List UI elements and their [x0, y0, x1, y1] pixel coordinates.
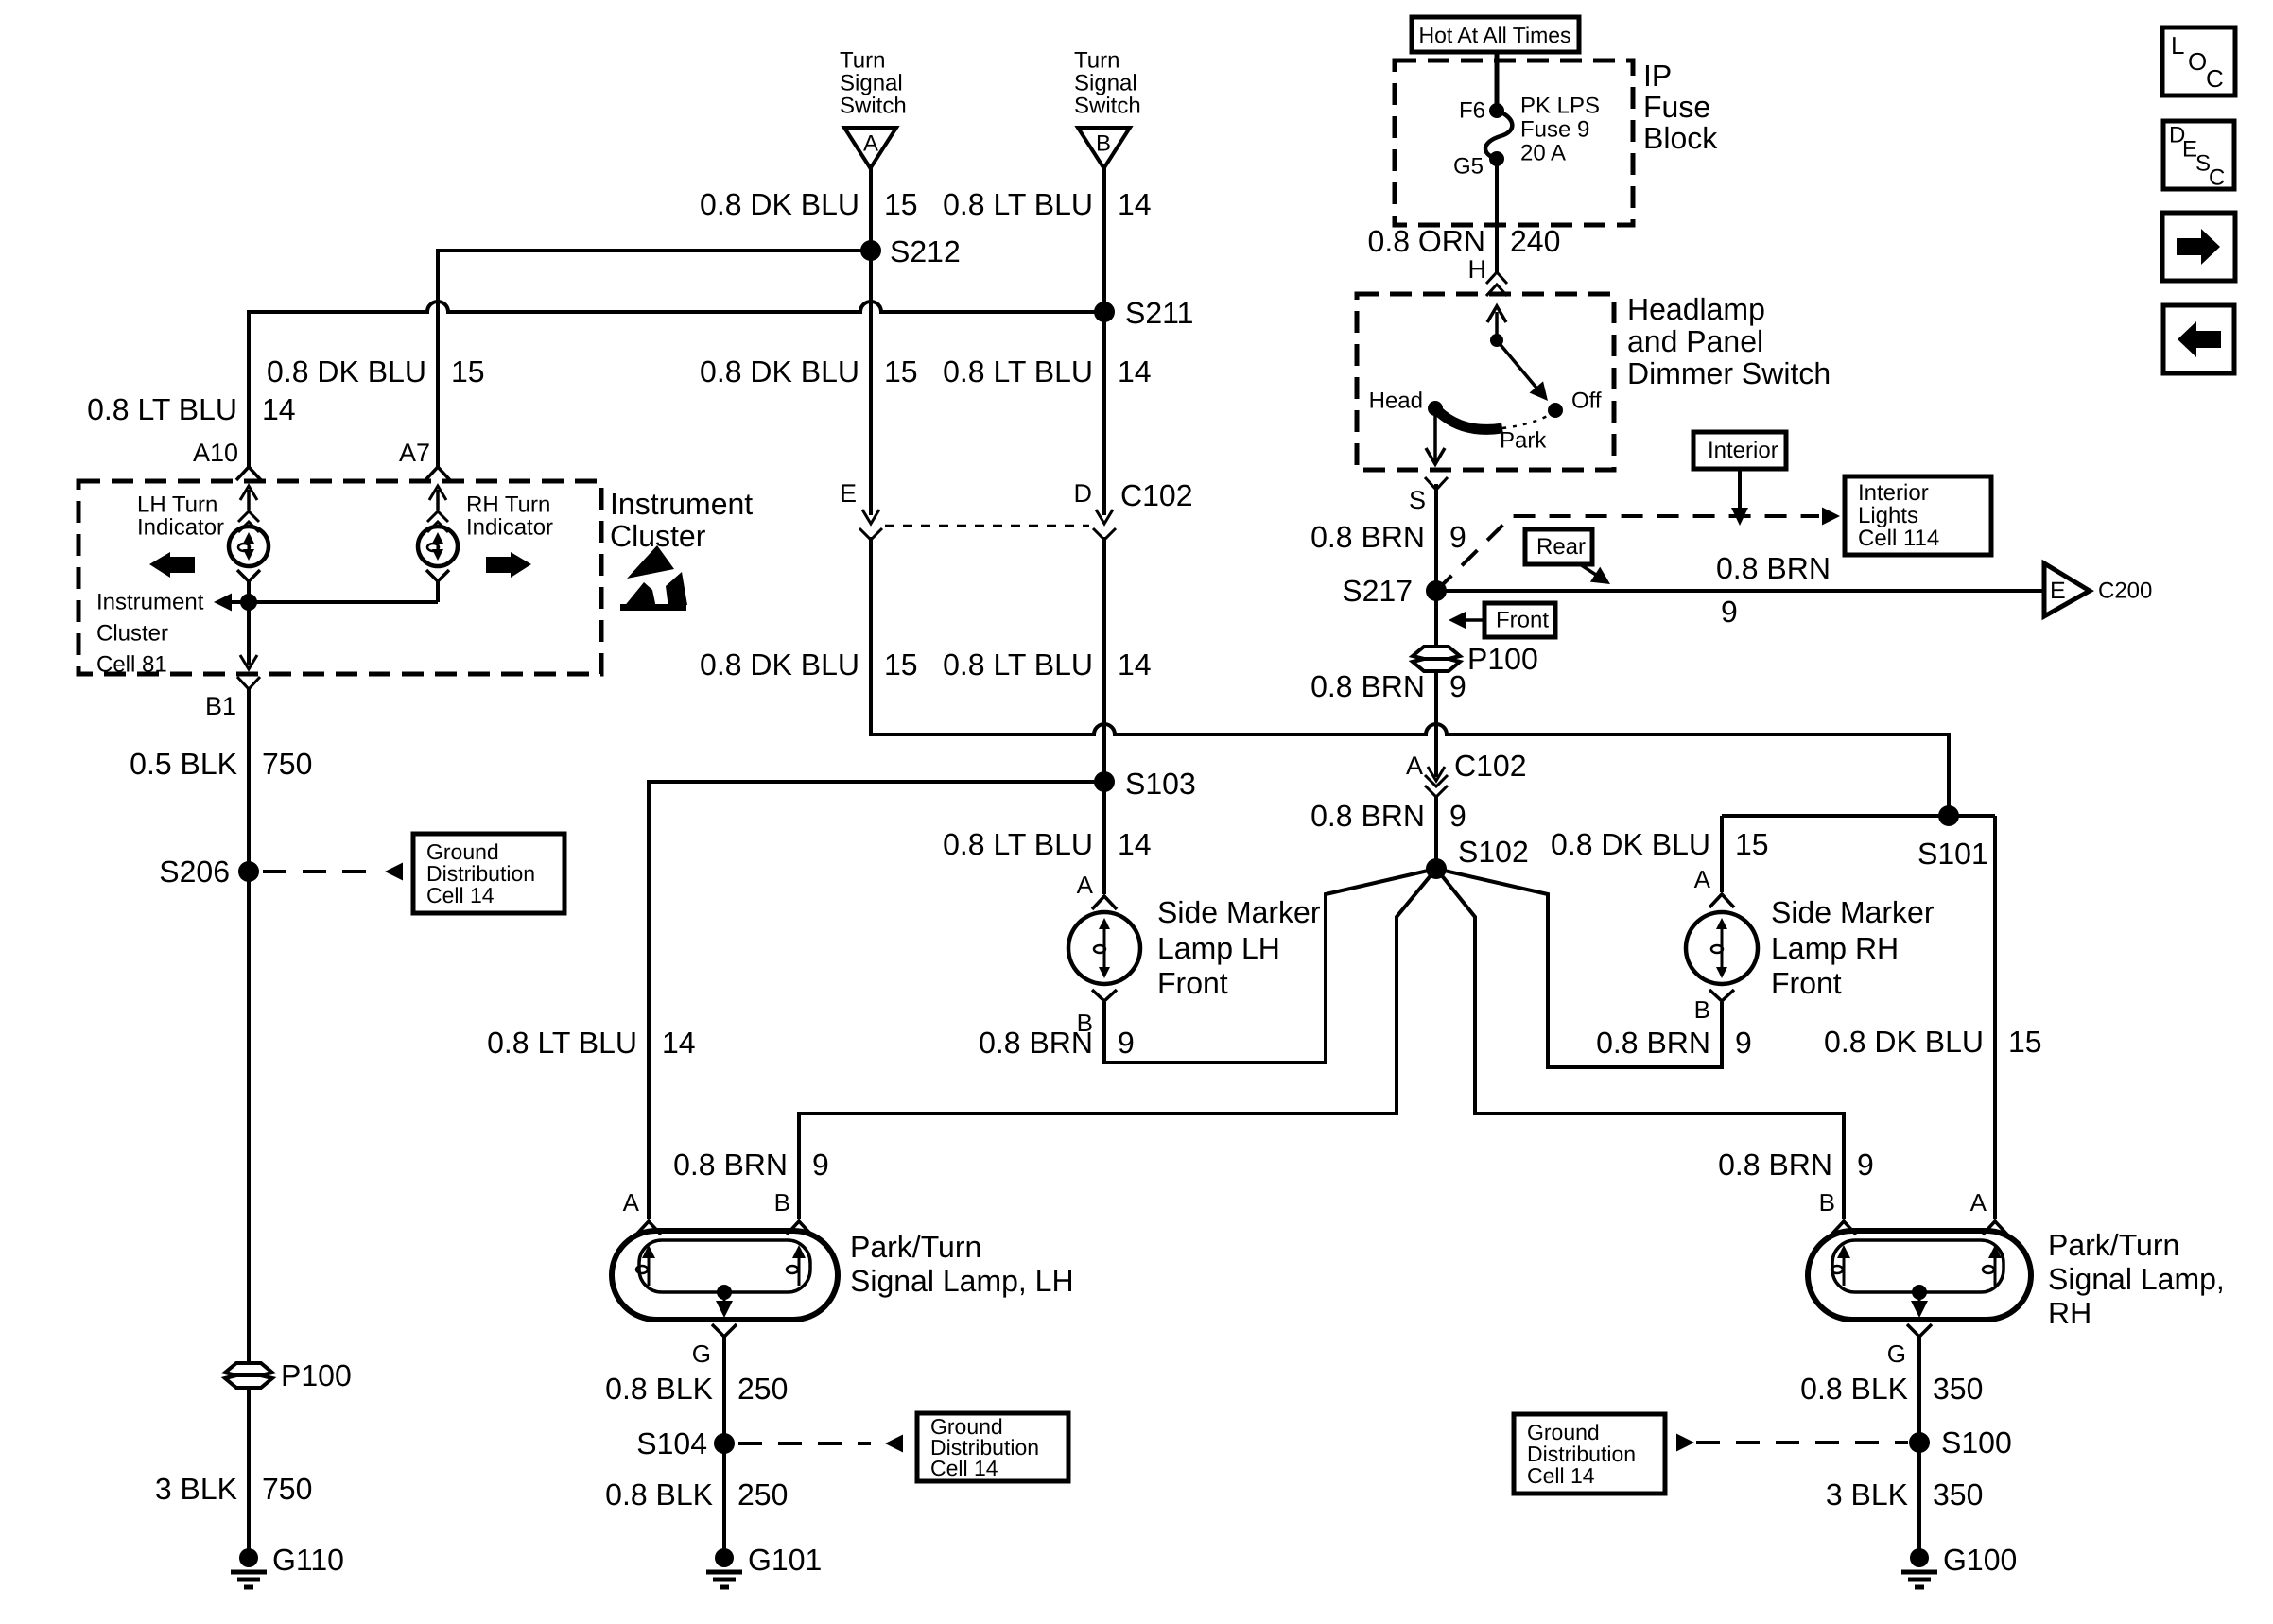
node indicator junction — [240, 594, 257, 611]
svg-text:Turn: Turn — [840, 48, 885, 74]
svg-text:B: B — [1096, 131, 1111, 157]
svg-text:Side Marker: Side Marker — [1771, 895, 1935, 929]
svg-text:Front: Front — [1157, 966, 1228, 1000]
svg-text:Instrument: Instrument — [610, 487, 753, 521]
svg-text:Park/Turn: Park/Turn — [2048, 1228, 2179, 1262]
svg-text:Off: Off — [1571, 389, 1602, 414]
Interior box arrow — [1731, 469, 1748, 526]
svg-text:0.8 BRN: 0.8 BRN — [979, 1026, 1093, 1060]
svg-text:0.8 BLK: 0.8 BLK — [1800, 1372, 1908, 1406]
label 0.8 BRN 9 above S102 — [1310, 799, 1466, 833]
Instrument Cluster dashed box — [78, 481, 601, 674]
contact Off — [1548, 389, 1602, 419]
Instrument Cluster label — [610, 487, 753, 553]
LOC legend box — [2162, 27, 2235, 95]
svg-text:0.8 BRN: 0.8 BRN — [1716, 551, 1831, 585]
left-arrow legend box — [2163, 305, 2234, 373]
svg-text:S103: S103 — [1125, 767, 1196, 801]
park/turn lamp RH internals — [1831, 1240, 2004, 1318]
svg-text:RH Turn: RH Turn — [466, 492, 550, 518]
dashed wire to Interior Lights — [1436, 508, 1840, 592]
svg-text:3 BLK: 3 BLK — [155, 1472, 237, 1506]
pin B LH park lamp — [774, 1188, 811, 1235]
LH Turn Indicator label — [137, 492, 224, 541]
svg-text:0.8 DK BLU: 0.8 DK BLU — [267, 354, 426, 389]
dashed ref S104 — [738, 1435, 903, 1453]
svg-text:250: 250 — [737, 1477, 788, 1512]
svg-text:750: 750 — [262, 747, 312, 781]
svg-text:0.8 LT BLU: 0.8 LT BLU — [943, 354, 1093, 389]
label row DK/LT BLU above run — [700, 648, 1152, 682]
pin A LH side marker — [1077, 871, 1117, 909]
svg-text:A: A — [1694, 865, 1711, 893]
svg-text:0.8 LT BLU: 0.8 LT BLU — [943, 827, 1093, 861]
label row DK BLU 15 mid-left — [267, 354, 485, 389]
svg-text:0.5 BLK: 0.5 BLK — [130, 747, 237, 781]
svg-text:Cell 14: Cell 14 — [426, 883, 495, 907]
svg-text:PK LPS: PK LPS — [1520, 94, 1600, 119]
splice S101 — [1917, 805, 1988, 871]
svg-text:G100: G100 — [1943, 1543, 2017, 1577]
svg-text:B: B — [1694, 995, 1710, 1024]
node F6 — [1459, 98, 1504, 124]
svg-text:Block: Block — [1643, 121, 1718, 155]
label 0.5 BLK 750 — [130, 747, 312, 781]
wire LH lamp ground — [722, 1337, 726, 1555]
Headlamp and Panel Dimmer Switch label — [1627, 292, 1831, 390]
svg-text:Park/Turn: Park/Turn — [850, 1230, 981, 1264]
svg-text:0.8 BRN: 0.8 BRN — [1596, 1026, 1710, 1060]
svg-text:15: 15 — [884, 648, 918, 682]
label 0.8 BRN 9 on C200 wire — [1716, 551, 1831, 629]
wire S102 to RH side marker B — [1436, 869, 1722, 1067]
svg-text:0.8 LT BLU: 0.8 LT BLU — [487, 1026, 637, 1060]
svg-text:S212: S212 — [890, 234, 961, 268]
svg-text:0.8 BRN: 0.8 BRN — [1310, 520, 1425, 554]
svg-text:9: 9 — [1857, 1148, 1874, 1182]
svg-text:9: 9 — [812, 1148, 829, 1182]
svg-text:and Panel: and Panel — [1627, 324, 1763, 358]
svg-text:Indicator: Indicator — [137, 515, 224, 541]
svg-text:0.8 DK BLU: 0.8 DK BLU — [1824, 1025, 1984, 1059]
wire indicator common — [214, 581, 438, 612]
svg-text:350: 350 — [1933, 1477, 1983, 1512]
svg-text:S102: S102 — [1458, 835, 1529, 869]
park/turn signal lamp LH housing — [612, 1231, 838, 1320]
svg-text:0.8 BRN: 0.8 BRN — [673, 1148, 788, 1182]
splice S103 — [1094, 767, 1196, 801]
Turn Signal Switch B connector — [1078, 128, 1130, 168]
label row DK/LT BLU mid — [700, 354, 1152, 389]
svg-text:C: C — [2209, 165, 2225, 191]
pin A RH park lamp — [1970, 1188, 2007, 1235]
label 3 BLK 750 — [155, 1472, 313, 1506]
svg-text:Indicator: Indicator — [466, 515, 553, 541]
Turn Signal Switch B label — [1074, 48, 1141, 119]
svg-text:G: G — [1887, 1339, 1906, 1368]
Side Marker Lamp LH Front label — [1157, 895, 1321, 1000]
wire S101 horizontal — [1722, 814, 1995, 818]
Instrument Cluster Cell 81 label — [96, 590, 204, 678]
svg-text:0.8 DK BLU: 0.8 DK BLU — [1551, 827, 1710, 861]
svg-text:S206: S206 — [159, 855, 230, 889]
svg-text:750: 750 — [262, 1472, 312, 1506]
splice S217 — [1342, 574, 1447, 608]
label 0.8 ORN 240 — [1368, 224, 1561, 258]
Ground Distribution Cell 14 box S100 — [1514, 1414, 1665, 1494]
svg-text:G101: G101 — [748, 1543, 822, 1577]
park/turn lamp LH internals — [636, 1240, 810, 1318]
svg-text:Cell 14: Cell 14 — [930, 1456, 998, 1480]
svg-text:B1: B1 — [205, 692, 236, 720]
svg-text:0.8 LT BLU: 0.8 LT BLU — [943, 187, 1093, 221]
switch output arrow — [1426, 408, 1445, 464]
svg-text:0.8 LT BLU: 0.8 LT BLU — [87, 392, 237, 426]
svg-text:Interior: Interior — [1708, 438, 1778, 463]
svg-text:Lamp LH: Lamp LH — [1157, 931, 1280, 965]
svg-text:Dimmer Switch: Dimmer Switch — [1627, 356, 1831, 390]
splice S206 — [159, 855, 259, 889]
svg-text:14: 14 — [1118, 354, 1152, 389]
node G5 — [1453, 151, 1504, 180]
side marker lamp LH front — [1068, 912, 1140, 984]
svg-text:H: H — [1468, 255, 1487, 284]
svg-text:9: 9 — [1118, 1026, 1135, 1060]
svg-text:0.8 ORN: 0.8 ORN — [1368, 224, 1485, 258]
svg-text:B: B — [1819, 1188, 1835, 1217]
connector C102 pin A — [1406, 749, 1527, 797]
Headlamp dimmer dashed box — [1357, 294, 1614, 470]
wire S103 to LH side marker — [1102, 782, 1106, 894]
label 0.8 BLK 350 upper — [1800, 1372, 1983, 1406]
svg-text:S100: S100 — [1941, 1425, 2012, 1460]
Hot At All Times box — [1412, 17, 1579, 52]
LH indicator input arrow — [238, 486, 259, 532]
left black arrow — [149, 552, 195, 578]
Turn Signal Switch A label — [840, 48, 907, 119]
Park/Turn Signal Lamp LH label — [850, 1230, 1074, 1298]
pin S connector — [1409, 477, 1448, 514]
svg-text:0.8 DK BLU: 0.8 DK BLU — [700, 187, 859, 221]
pin G LH park lamp — [692, 1324, 737, 1368]
side marker lamp RH front — [1686, 912, 1758, 984]
wire fuse output — [1495, 159, 1499, 274]
Turn Signal Switch A connector — [844, 128, 896, 168]
label 0.8 BRN 9 below S — [1310, 520, 1466, 554]
RH turn indicator lamp — [418, 527, 458, 566]
IP fuse block dashed box — [1395, 60, 1633, 225]
svg-text:Cell 81: Cell 81 — [96, 652, 167, 678]
svg-text:14: 14 — [1118, 827, 1152, 861]
pin A7 — [399, 439, 450, 480]
svg-text:C102: C102 — [1120, 478, 1193, 512]
pin A10 — [193, 439, 261, 480]
label 0.8 BRN 9 RH side marker — [1596, 1026, 1752, 1060]
wire S103 branch to LH park lamp — [649, 782, 1104, 1219]
svg-text:Hot At All Times: Hot At All Times — [1418, 23, 1570, 47]
label 0.8 DK BLU 15 RH side marker — [1551, 827, 1769, 861]
svg-text:E: E — [840, 479, 857, 508]
ground G100 — [1901, 1543, 2017, 1587]
svg-text:14: 14 — [1118, 648, 1152, 682]
label 0.8 LT BLU 14 LH-A — [487, 1026, 696, 1060]
label 0.8 BRN 9 RH park B — [1718, 1148, 1874, 1182]
svg-text:0.8 BRN: 0.8 BRN — [1718, 1148, 1832, 1182]
inline connector P100 left — [225, 1358, 352, 1392]
Rear box and arrow — [1525, 529, 1615, 592]
label Park — [1500, 428, 1547, 454]
svg-text:Cell 14: Cell 14 — [1527, 1463, 1595, 1488]
dashed ref S206 — [263, 863, 403, 881]
ground G110 — [231, 1543, 344, 1587]
svg-text:P100: P100 — [1467, 642, 1538, 676]
wire cluster to G110 — [247, 689, 251, 1555]
svg-text:Head: Head — [1369, 389, 1423, 414]
RH indicator lamp chevron — [426, 570, 449, 581]
svg-text:Signal Lamp, LH: Signal Lamp, LH — [850, 1264, 1074, 1298]
Side Marker Lamp RH Front label — [1771, 895, 1935, 1000]
svg-text:Interior: Interior — [1858, 480, 1929, 506]
svg-text:S211: S211 — [1125, 296, 1193, 330]
ground G101 — [706, 1543, 822, 1587]
switch input arrow — [1487, 306, 1506, 340]
svg-text:Signal: Signal — [1074, 71, 1137, 96]
pin B RH park lamp — [1819, 1188, 1856, 1235]
svg-text:15: 15 — [1735, 827, 1769, 861]
svg-text:Lamp RH: Lamp RH — [1771, 931, 1899, 965]
label 3 BLK 350 — [1826, 1477, 1984, 1512]
label 0.8 BLK 250 lower — [605, 1477, 788, 1512]
right black arrow — [486, 552, 531, 578]
svg-text:350: 350 — [1933, 1372, 1983, 1406]
wire S217 to C200 — [1436, 589, 2044, 593]
svg-text:9: 9 — [1721, 595, 1738, 629]
svg-text:Front: Front — [1496, 608, 1549, 633]
svg-text:Lights: Lights — [1858, 503, 1918, 528]
svg-text:A: A — [623, 1188, 640, 1217]
wire BRN trunk upper — [1434, 484, 1438, 591]
svg-text:A: A — [1077, 871, 1094, 899]
svg-text:A: A — [1406, 752, 1423, 780]
svg-text:Signal Lamp,: Signal Lamp, — [2048, 1262, 2225, 1296]
right-arrow legend box — [2162, 213, 2235, 281]
svg-text:RH: RH — [2048, 1296, 2091, 1330]
svg-text:240: 240 — [1510, 224, 1560, 258]
label 0.8 BLK 250 upper — [605, 1372, 788, 1406]
splice S100 — [1909, 1425, 2012, 1460]
svg-text:0.8 DK BLU: 0.8 DK BLU — [700, 354, 859, 389]
svg-text:9: 9 — [1449, 520, 1466, 554]
svg-text:0.8 BRN: 0.8 BRN — [1310, 799, 1425, 833]
svg-text:Side Marker: Side Marker — [1157, 895, 1321, 929]
svg-text:S104: S104 — [636, 1426, 707, 1460]
svg-text:14: 14 — [1118, 187, 1152, 221]
IP Fuse Block label — [1643, 59, 1718, 155]
label 0.8 BRN 9 LH park B — [673, 1148, 829, 1182]
wire hot feed — [1495, 52, 1500, 111]
switch pivot — [1490, 334, 1503, 347]
svg-text:Headlamp: Headlamp — [1627, 292, 1765, 326]
svg-text:9: 9 — [1449, 799, 1466, 833]
svg-text:G: G — [692, 1339, 711, 1368]
pin A RH side marker — [1694, 865, 1734, 907]
svg-text:LH Turn: LH Turn — [137, 492, 217, 518]
dotted arc Park-Off — [1502, 413, 1553, 428]
Front box and arrow — [1449, 603, 1555, 637]
wire RH side marker A — [1720, 816, 1724, 892]
svg-text:F6: F6 — [1459, 98, 1485, 124]
wiper arc Head-Park — [1435, 408, 1502, 429]
svg-text:E: E — [2050, 578, 2066, 604]
splice S212 — [860, 234, 961, 268]
park/turn signal lamp RH housing — [1808, 1231, 2031, 1320]
svg-text:Rear: Rear — [1536, 534, 1586, 560]
switch wiper to Off — [1497, 340, 1554, 406]
LH indicator lamp chevron — [237, 570, 260, 581]
wire D drop to S103 — [1102, 537, 1106, 782]
wire cluster ground drop — [240, 602, 257, 669]
wire switch A drop — [869, 168, 873, 515]
svg-text:15: 15 — [884, 354, 918, 389]
svg-text:9: 9 — [1449, 669, 1466, 703]
svg-text:Cluster: Cluster — [96, 621, 168, 647]
svg-text:3 BLK: 3 BLK — [1826, 1477, 1908, 1512]
svg-text:Fuse: Fuse — [1643, 90, 1710, 124]
svg-text:C102: C102 — [1454, 749, 1527, 783]
svg-text:B: B — [774, 1188, 790, 1217]
splice S102 — [1426, 835, 1529, 879]
svg-text:D: D — [1074, 479, 1093, 508]
svg-text:0.8 BLK: 0.8 BLK — [605, 1477, 713, 1512]
svg-text:Turn: Turn — [1074, 48, 1119, 74]
svg-text:O: O — [2188, 47, 2207, 76]
svg-text:A: A — [1970, 1188, 1987, 1217]
svg-text:0.8 DK BLU: 0.8 DK BLU — [700, 648, 859, 682]
RH indicator input arrow — [427, 486, 448, 532]
svg-text:14: 14 — [262, 392, 296, 426]
svg-text:C200: C200 — [2098, 579, 2152, 604]
svg-text:P100: P100 — [281, 1358, 352, 1392]
svg-text:Fuse 9: Fuse 9 — [1520, 117, 1589, 143]
svg-text:14: 14 — [662, 1026, 696, 1060]
wire LH side marker B — [1104, 869, 1436, 1063]
svg-text:Instrument: Instrument — [96, 590, 204, 615]
label 0.8 DK BLU 15 right — [1824, 1025, 2042, 1059]
connector C102 pins E D — [840, 478, 1193, 540]
dashed ref S100 — [1676, 1434, 1908, 1452]
svg-text:C: C — [2206, 64, 2224, 93]
svg-text:A: A — [863, 131, 878, 157]
svg-text:20 A: 20 A — [1520, 141, 1566, 166]
svg-text:A7: A7 — [399, 439, 430, 467]
wire DK BLU to RH park lamp — [1993, 816, 1997, 1219]
svg-text:0.8 BRN: 0.8 BRN — [1310, 669, 1425, 703]
fuse value label — [1520, 94, 1600, 166]
wire S211 branch — [249, 302, 1104, 467]
fuse F9 element — [1485, 111, 1512, 159]
svg-text:Cell 114: Cell 114 — [1858, 526, 1939, 551]
svg-text:15: 15 — [451, 354, 485, 389]
label row DK BLU 15 / LT BLU 14 top — [700, 187, 1152, 221]
Park/Turn Signal Lamp RH label — [2048, 1228, 2225, 1330]
DESC legend box — [2163, 121, 2234, 191]
svg-text:0.8 LT BLU: 0.8 LT BLU — [943, 648, 1093, 682]
svg-text:Park: Park — [1500, 428, 1547, 454]
wire S212 branch — [438, 251, 871, 467]
Interior Lights Cell 114 box — [1845, 476, 1991, 555]
connector E C200 — [2044, 563, 2152, 616]
wire BRN trunk lower — [1434, 797, 1438, 869]
svg-text:S: S — [1409, 486, 1426, 514]
RH Turn Indicator label — [466, 492, 553, 541]
pin B1 — [205, 677, 260, 720]
svg-text:Front: Front — [1771, 966, 1842, 1000]
Interior box — [1693, 432, 1786, 469]
LH turn indicator lamp — [229, 527, 269, 566]
pin A LH park lamp — [623, 1188, 661, 1235]
svg-text:L: L — [2171, 31, 2184, 60]
contact Head — [1369, 389, 1443, 417]
svg-text:Switch: Switch — [1074, 94, 1141, 119]
svg-text:15: 15 — [884, 187, 918, 221]
wire BRN trunk mid — [1434, 591, 1438, 770]
pin H connector — [1468, 255, 1508, 296]
svg-text:S217: S217 — [1342, 574, 1413, 608]
wire E drop and run to S101 — [871, 537, 1949, 816]
pin G RH park lamp — [1887, 1324, 1932, 1368]
wire S102 to RH park lamp B — [1436, 869, 1844, 1219]
svg-text:250: 250 — [737, 1372, 788, 1406]
svg-text:A10: A10 — [193, 439, 238, 467]
inline connector P100 — [1413, 642, 1538, 676]
label 0.8 LT BLU 14 above LH side marker — [943, 827, 1152, 861]
label 0.8 LT BLU 14 left — [87, 392, 296, 426]
wire RH lamp ground — [1917, 1337, 1921, 1555]
label 0.8 BRN 9 LH side marker — [979, 1026, 1135, 1060]
splice S104 — [636, 1426, 735, 1460]
wire S102 to LH park lamp B — [799, 869, 1436, 1219]
svg-text:Signal: Signal — [840, 71, 903, 96]
svg-text:G110: G110 — [272, 1543, 344, 1577]
wire switch B drop — [1102, 168, 1106, 515]
ESD symbol — [620, 545, 687, 611]
Ground Distribution Cell 14 box S206 — [413, 834, 564, 913]
svg-text:Switch: Switch — [840, 94, 907, 119]
svg-text:IP: IP — [1643, 59, 1672, 93]
pin B LH side marker — [1077, 990, 1117, 1037]
pin B RH side marker — [1694, 990, 1734, 1024]
svg-text:15: 15 — [2008, 1025, 2042, 1059]
Ground Distribution Cell 14 box S104 — [917, 1413, 1068, 1481]
svg-text:9: 9 — [1735, 1026, 1752, 1060]
splice S211 — [1094, 296, 1193, 330]
svg-text:S101: S101 — [1917, 837, 1988, 871]
label 0.8 BRN 9 below P100 — [1310, 669, 1466, 703]
svg-text:G5: G5 — [1453, 154, 1484, 180]
svg-text:0.8 BLK: 0.8 BLK — [605, 1372, 713, 1406]
